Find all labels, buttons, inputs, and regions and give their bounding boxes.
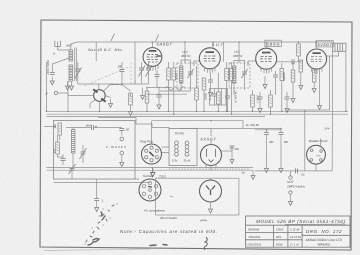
speaker plug top wire — [320, 139, 322, 148]
plug top feed wire — [151, 121, 153, 144]
underline under serial — [285, 223, 346, 225]
coil ground arrows — [66, 82, 70, 91]
IF1 winding — [180, 66, 183, 83]
osc padder trimmer — [81, 152, 86, 154]
bend wire to TR box — [98, 118, 169, 129]
volume pot — [58, 123, 62, 135]
tube2 grid leak resistor — [195, 88, 199, 100]
B+ dropper resistor — [297, 44, 301, 56]
cap in bottom wire — [296, 168, 298, 173]
screen feed vertical — [223, 42, 225, 62]
screen resistor 2 — [172, 68, 176, 80]
tube4 grid resistor — [299, 60, 303, 72]
tube2 screen resistors right — [225, 69, 229, 81]
converter ground — [109, 99, 113, 108]
tube4 label box — [316, 41, 334, 47]
IF2 winding — [233, 66, 236, 83]
tube4 heater drop — [319, 73, 321, 101]
wire antenna to coil — [58, 49, 71, 51]
audio grid resistor — [291, 70, 295, 82]
antenna — [55, 41, 61, 50]
slash mark 2 near tube1 — [156, 35, 159, 42]
cap mid1 — [225, 96, 230, 98]
tube4 cathode resistor — [312, 70, 316, 82]
tube1 pins — [148, 65, 159, 71]
top B+ rail — [77, 41, 333, 43]
osc tuning cap 1 — [139, 68, 144, 70]
bias resistor — [145, 91, 149, 103]
cap mid3 — [285, 97, 290, 99]
antenna coil secondary winding — [69, 65, 72, 81]
rail 3 — [47, 116, 266, 118]
TB2 tube top lead — [210, 178, 212, 180]
primary feed wires from plug — [162, 147, 170, 153]
osc tuning cap 2 — [146, 68, 151, 70]
antenna tuning cap — [75, 69, 80, 71]
speaker bottom wire and box — [289, 141, 332, 171]
resistor mid2 — [251, 95, 255, 107]
IF1 top to rail — [184, 42, 186, 63]
tube1 side bar — [157, 55, 162, 56]
left edge long wire — [46, 62, 48, 111]
plug-to-socket arrow — [151, 168, 155, 177]
rail 6 right — [180, 128, 281, 130]
boxed capacitor under tube2 — [210, 89, 227, 106]
gang bottom bus — [78, 80, 149, 84]
tube3 cathode ground — [263, 80, 267, 89]
converter bias resistor — [130, 93, 132, 97]
wire coil top to top rail — [71, 42, 77, 50]
secondary winding loops — [185, 141, 189, 156]
tube1 grids — [147, 55, 159, 63]
IF2 top to rail — [238, 42, 240, 63]
socket keyway — [148, 186, 152, 189]
tube1 top lead — [152, 42, 154, 48]
cap mid2 — [258, 97, 263, 99]
heater ticks — [170, 168, 248, 171]
osc grid resistor — [56, 142, 60, 154]
converter leads — [68, 84, 122, 111]
screen cap — [155, 75, 160, 77]
slash mark on rail — [111, 34, 115, 41]
right side verticals — [286, 51, 346, 141]
output transformer — [333, 43, 347, 51]
screen resistor 1 — [167, 68, 171, 80]
bypass cap under tube1 — [157, 95, 162, 97]
rectifier output cap to ground — [222, 146, 233, 151]
tube1 anode bar — [149, 50, 157, 52]
resistor mid1 — [217, 92, 221, 104]
primary winding loops — [175, 141, 179, 156]
rail stubs left — [44, 126, 56, 128]
diode load resistor — [280, 69, 284, 81]
osc grid cap — [61, 159, 66, 161]
plug keyway — [149, 152, 153, 156]
gang dashed diagonal — [84, 67, 129, 86]
converter cathode drop wire — [67, 95, 69, 112]
IF1 out to tube2 grid — [194, 61, 200, 66]
rail drop wire at x96 — [95, 42, 97, 61]
osc trimmer 2 — [70, 169, 75, 171]
AVC rail — [47, 110, 349, 112]
IF2 out to tube3 — [248, 61, 256, 66]
B- rail — [47, 113, 349, 115]
tube2 cathode components — [202, 78, 206, 90]
drawing border frame — [40, 20, 352, 250]
coil core lines — [75, 48, 77, 82]
rail 4 — [152, 121, 243, 129]
resistor mid3 — [269, 95, 273, 107]
antenna coil primary winding — [69, 50, 72, 61]
trimmer cap with ground — [50, 73, 55, 75]
page edge line — [44, 249, 150, 251]
tube1 bias ground — [141, 91, 145, 100]
rectifier top feed wire — [210, 129, 212, 137]
gang dashed vertical — [130, 63, 132, 85]
wire left to ground — [253, 169, 289, 172]
oscillator coil — [72, 130, 75, 154]
IF1 trimmer cap — [188, 72, 193, 74]
coupling cap .02 — [277, 61, 292, 63]
cap below box to ground — [96, 179, 98, 199]
box bottom extra bus — [54, 179, 151, 183]
tube3 label box — [265, 40, 282, 46]
tube3 bypass cap — [273, 75, 278, 77]
wire from rail down at x135 — [134, 42, 136, 84]
wavy grid wire — [165, 87, 185, 91]
plate wire to OPT — [327, 51, 339, 56]
IF2 trimmer cap — [242, 72, 247, 74]
speaker feed vertical — [304, 111, 306, 171]
